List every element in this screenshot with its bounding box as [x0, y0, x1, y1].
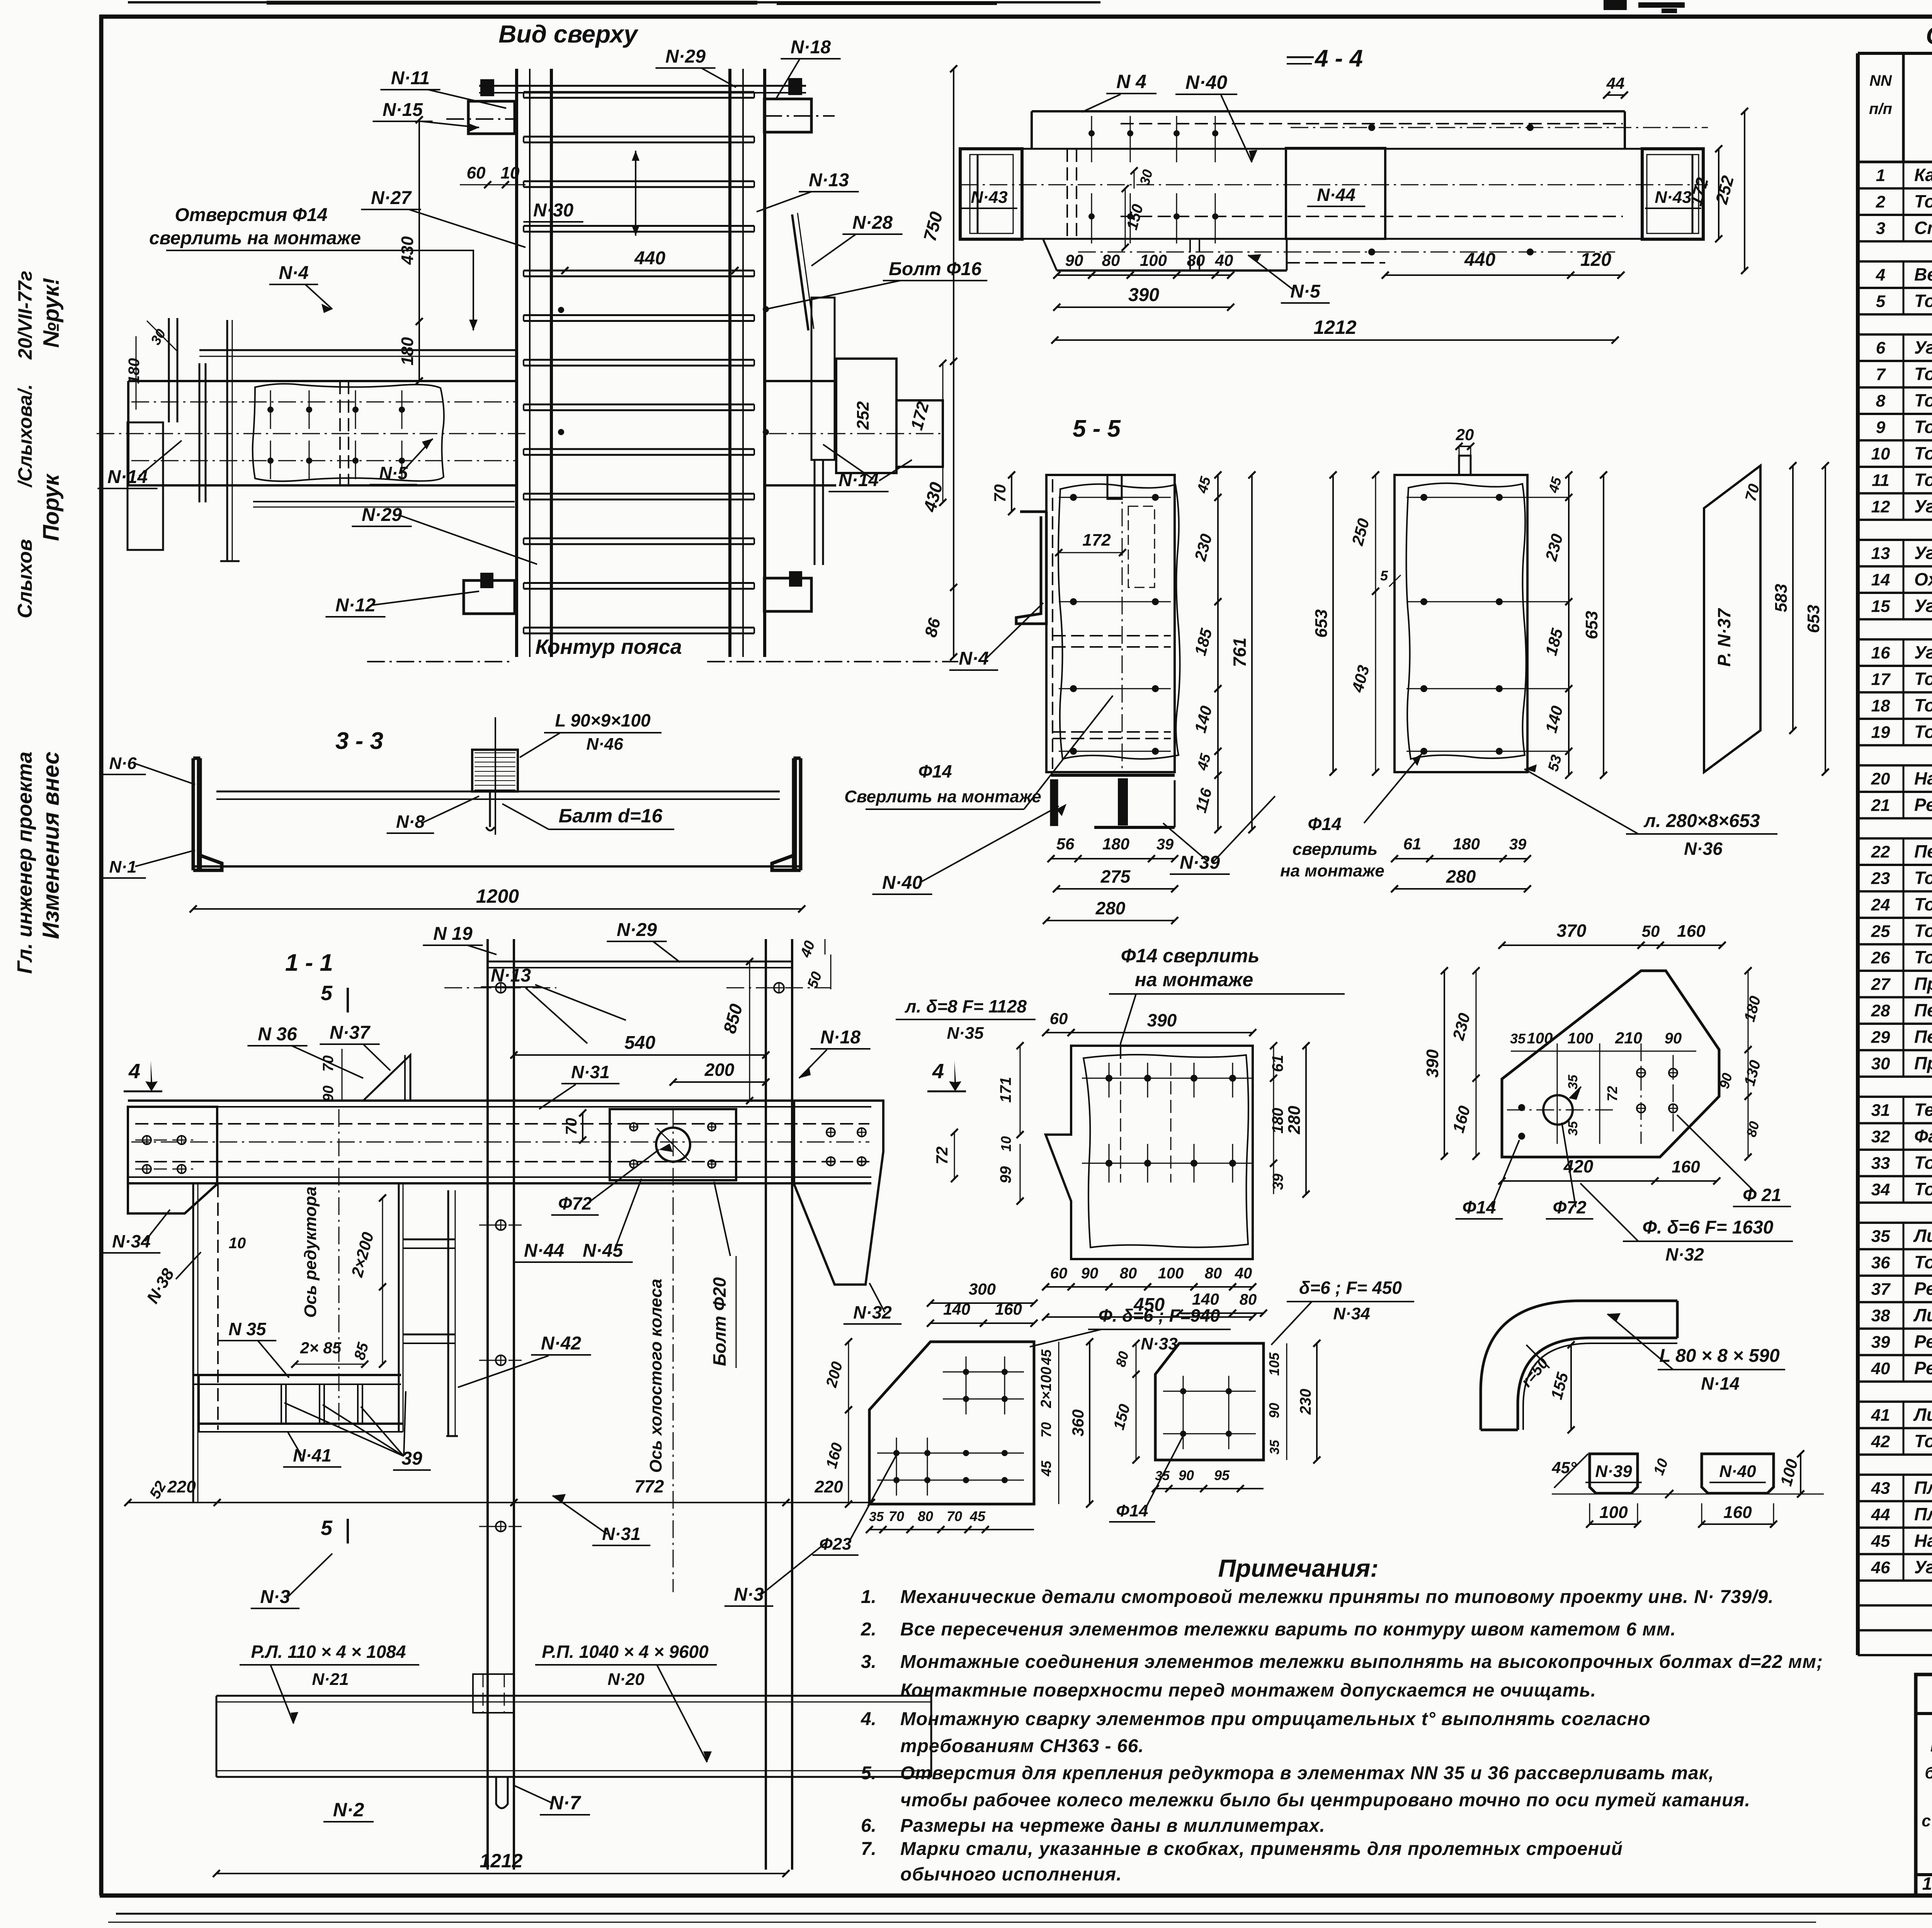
- svg-text:220: 220: [167, 1477, 196, 1496]
- svg-text:20: 20: [1871, 769, 1890, 788]
- svg-text:90: 90: [1266, 1403, 1282, 1418]
- table row 26: [1858, 970, 1932, 972]
- svg-text:N·34: N·34: [112, 1231, 151, 1251]
- table row 24: [1858, 917, 1932, 919]
- 4-4 left bolt pattern: [1088, 130, 1095, 136]
- svg-text:10: 10: [1871, 444, 1890, 463]
- svg-text:обычного исполнения.: обычного исполнения.: [900, 1864, 1122, 1885]
- svg-text:N·43: N·43: [971, 188, 1007, 207]
- 5-5 right parallelogram Р N-37: [1704, 466, 1760, 772]
- 3-3 channel beam: [216, 791, 780, 793]
- svg-text:N·14: N·14: [1701, 1373, 1740, 1394]
- 5-5 left plate: [1046, 475, 1175, 772]
- svg-text:№рук!: №рук!: [39, 278, 64, 348]
- table row s23: [1858, 764, 1932, 767]
- svg-text:на монтаже: на монтаже: [1135, 969, 1253, 990]
- svg-text:34: 34: [1871, 1180, 1890, 1199]
- svg-text:Фасонка: Фасонка: [1914, 1126, 1932, 1146]
- svg-text:4: 4: [932, 1060, 944, 1083]
- page frame: [100, 15, 1932, 19]
- svg-text:52: 52: [146, 1478, 170, 1502]
- svg-text:Уголок: Уголок: [1914, 1557, 1932, 1577]
- svg-text:То же: То же: [1914, 669, 1932, 689]
- N-34 top dims 140 80: [1179, 1312, 1233, 1314]
- table row 9: [1858, 439, 1932, 442]
- svg-text:Марки стали, указанные в скоб: Марки стали, указанные в скобках, примен…: [900, 1839, 1623, 1859]
- svg-text:N·18: N·18: [791, 37, 831, 58]
- svg-text:5.: 5.: [861, 1763, 876, 1783]
- svg-text:Уголок площадки: Уголок площадки: [1914, 496, 1932, 516]
- bracket N-14 (curved angle): [1481, 1301, 1677, 1430]
- svg-text:Отверстия для крепления ред: Отверстия для крепления редуктора в элем…: [900, 1763, 1714, 1783]
- svg-text:То же: То же: [1914, 1179, 1932, 1199]
- svg-text:21: 21: [1871, 796, 1890, 815]
- table row s3: [1858, 260, 1932, 263]
- svg-text:5: 5: [321, 1516, 333, 1540]
- reducer spacer plates 39: [281, 1384, 282, 1424]
- 4-4 left cap dims 150 30: [1125, 189, 1126, 247]
- svg-text:150: 150: [1111, 1402, 1134, 1432]
- table row 25: [1858, 943, 1932, 946]
- table row 35: [1858, 1248, 1932, 1251]
- 5-5 dim 653 right of middle: [1603, 475, 1604, 775]
- 4-4 dims 172 252: [1718, 149, 1719, 239]
- svg-text:70: 70: [563, 1118, 580, 1135]
- svg-text:N·41: N·41: [293, 1445, 332, 1465]
- svg-text:1212: 1212: [1313, 317, 1356, 338]
- svg-text:12: 12: [1871, 497, 1890, 516]
- table row 30: [1858, 1075, 1932, 1078]
- svg-text:440: 440: [1464, 250, 1495, 270]
- svg-text:/Слыхова/.: /Слыхова/.: [14, 384, 36, 488]
- N-32 right dims 180 130 80 90: [1748, 971, 1749, 1050]
- svg-text:370: 370: [1557, 921, 1587, 941]
- 3-3 dim 1200: [193, 908, 802, 910]
- svg-text:220: 220: [814, 1477, 843, 1496]
- svg-text:430: 430: [919, 480, 946, 514]
- svg-text:Сверлить на монтаже: Сверлить на монтаже: [844, 787, 1041, 806]
- table row 27: [1858, 996, 1932, 999]
- 4-4 middle box N-44: [1286, 148, 1385, 239]
- svg-text:N·42: N·42: [541, 1333, 581, 1354]
- svg-text:35: 35: [869, 1509, 884, 1524]
- 5-5 dims 56 180 39: [1051, 858, 1175, 859]
- right arm clamp plates N-14: [811, 298, 835, 460]
- reducer right vertical: [398, 1183, 400, 1432]
- svg-text:То же: То же: [1914, 470, 1932, 490]
- svg-text:250: 250: [1348, 516, 1373, 548]
- 5-5 middle dim 280: [1395, 888, 1527, 890]
- N-35 dim 450: [1046, 1316, 1253, 1318]
- 5-5 left dashed details: [1052, 479, 1053, 769]
- svg-text:39: 39: [1156, 836, 1174, 853]
- plate N-39 small: [1590, 1454, 1638, 1493]
- table row s6: [1858, 334, 1932, 336]
- 5-5 middle wavy inner: [1406, 483, 1526, 759]
- svg-text:Каркас тележки: Каркас тележки: [1914, 165, 1932, 185]
- svg-text:1 - 1: 1 - 1: [285, 950, 333, 976]
- svg-text:N·31: N·31: [602, 1524, 641, 1544]
- svg-text:300: 300: [969, 1280, 996, 1298]
- svg-text:То же: То же: [1914, 291, 1932, 311]
- svg-text:60: 60: [1050, 1009, 1068, 1028]
- svg-text:35: 35: [1267, 1440, 1282, 1455]
- 5-5 right dim chain: [1217, 475, 1219, 830]
- svg-text:требованиям СН363 - 66.: требованиям СН363 - 66.: [900, 1736, 1144, 1756]
- svg-text:Прутки настила: Прутки настила: [1914, 1053, 1932, 1073]
- table row 13: [1858, 565, 1932, 568]
- svg-text:160: 160: [823, 1441, 846, 1470]
- svg-text:100: 100: [1158, 1265, 1184, 1282]
- svg-text:80: 80: [1120, 1265, 1137, 1282]
- svg-text:100: 100: [1140, 251, 1167, 269]
- svg-text:N·39: N·39: [1595, 1462, 1632, 1481]
- svg-text:46: 46: [1871, 1558, 1890, 1577]
- svg-text:653: 653: [1804, 605, 1823, 633]
- 3-3 left end angle: [193, 758, 222, 870]
- svg-text:70: 70: [1038, 1422, 1054, 1438]
- svg-text:N·31: N·31: [571, 1062, 610, 1082]
- top clamp plate right N-18: [764, 99, 811, 132]
- svg-text:Ф14 сверлить: Ф14 сверлить: [1121, 945, 1260, 967]
- svg-text:N 4: N 4: [1116, 71, 1146, 92]
- title block outer: [1916, 1674, 1932, 1896]
- baseline through plates: [1552, 1494, 1824, 1495]
- table row 17: [1858, 691, 1932, 694]
- svg-text:140: 140: [1192, 1290, 1219, 1308]
- svg-text:N·13: N·13: [809, 170, 849, 191]
- svg-text:N·14: N·14: [107, 467, 148, 487]
- bottom clamp plate left N-12: [464, 580, 515, 614]
- svg-text:18: 18: [1871, 696, 1890, 715]
- 5-5 middle dim 20 top: [1459, 446, 1471, 447]
- svg-text:Планка: Планка: [1914, 1477, 1932, 1497]
- scan smudge top-center: [1604, 0, 1627, 10]
- top view top bar N-29: [479, 85, 806, 87]
- top clamp plate left N-11/15: [468, 101, 515, 134]
- svg-text:4: 4: [128, 1060, 140, 1083]
- 4-4 right cap N-43: [1642, 149, 1703, 239]
- svg-text:17: 17: [1871, 670, 1891, 689]
- table row s51: [1858, 1474, 1932, 1476]
- svg-text:N·46: N·46: [586, 735, 623, 754]
- piece N-28 diagonal strip: [792, 214, 808, 330]
- svg-text:Планка: Планка: [1914, 1504, 1932, 1524]
- table row 14: [1858, 592, 1932, 594]
- svg-text:Р. N·37: Р. N·37: [1714, 607, 1734, 667]
- svg-text:сверлить: сверлить: [1293, 840, 1378, 859]
- svg-text:70: 70: [320, 1055, 337, 1072]
- svg-text:13: 13: [1871, 544, 1890, 563]
- svg-text:30: 30: [1136, 168, 1156, 187]
- svg-text:Ребро: Ребро: [1914, 1278, 1932, 1298]
- svg-text:583: 583: [1772, 584, 1791, 612]
- svg-text:N 19: N 19: [433, 924, 473, 944]
- table row t58: [1858, 1654, 1932, 1656]
- svg-text:Ф72: Ф72: [1553, 1197, 1586, 1217]
- svg-text:40: 40: [1235, 1265, 1252, 1282]
- 5-5 angle bracket N-4: [1016, 512, 1046, 624]
- svg-text:39: 39: [1509, 836, 1527, 853]
- svg-text:5: 5: [321, 982, 333, 1005]
- svg-text:653: 653: [1312, 609, 1331, 638]
- svg-text:28: 28: [1871, 1001, 1890, 1020]
- svg-text:440: 440: [634, 248, 665, 269]
- svg-text:То же: То же: [1914, 364, 1932, 384]
- svg-text:Охранный уголок: Охранный уголок: [1914, 569, 1932, 589]
- svg-text:То же: То же: [1914, 894, 1932, 914]
- svg-text:Ребро настила: Ребро настила: [1914, 795, 1932, 815]
- svg-text:N·11: N·11: [391, 68, 430, 88]
- idler ladder verticals: [447, 1190, 449, 1436]
- vertical bar near left rail: [226, 320, 228, 561]
- svg-text:N·32: N·32: [853, 1302, 892, 1322]
- svg-text:Рабочие чертежи: Рабочие чертежи: [1930, 1731, 1932, 1756]
- dim 180 left: [418, 322, 420, 381]
- svg-text:То же: То же: [1914, 1431, 1932, 1451]
- table row 32: [1858, 1149, 1932, 1151]
- svg-text:390: 390: [1128, 285, 1159, 305]
- N-34 bolts: [1180, 1388, 1186, 1394]
- 4-4 dims 90 80 100 80 40: [1057, 274, 1231, 276]
- svg-text:100: 100: [1527, 1030, 1553, 1047]
- svg-text:100: 100: [1599, 1503, 1628, 1522]
- svg-text:90: 90: [1081, 1265, 1099, 1282]
- svg-text:772: 772: [634, 1476, 664, 1496]
- svg-text:10: 10: [998, 1136, 1014, 1152]
- svg-text:N·43: N·43: [1655, 188, 1691, 207]
- plate N-34: [1155, 1343, 1264, 1460]
- svg-text:N·29: N·29: [617, 920, 657, 940]
- svg-text:15: 15: [1871, 597, 1890, 616]
- svg-text:90: 90: [1665, 1030, 1682, 1047]
- svg-text:N·28: N·28: [852, 213, 893, 233]
- svg-text:80: 80: [918, 1508, 933, 1524]
- svg-text:40: 40: [797, 939, 818, 960]
- table row t57: [1858, 1629, 1932, 1632]
- N-35 dims bottom 60 90 80 100 80 40: [1046, 1286, 1253, 1288]
- table row 11: [1858, 492, 1932, 495]
- svg-text:160: 160: [1677, 922, 1706, 941]
- table row t56: [1858, 1604, 1932, 1606]
- svg-text:20: 20: [1456, 425, 1474, 444]
- svg-text:160: 160: [1672, 1157, 1700, 1176]
- svg-text:Спецификация металла на одн: Спецификация металла на одну тележку: [1926, 22, 1932, 49]
- top view rungs: [524, 91, 754, 93]
- table row 42: [1858, 1453, 1932, 1456]
- svg-text:140: 140: [1542, 704, 1566, 735]
- svg-text:То же: То же: [1914, 390, 1932, 410]
- table row 2: [1858, 214, 1932, 216]
- svg-text:Вид сверху: Вид сверху: [498, 20, 639, 48]
- 1-1 small gusset 36-37: [363, 1055, 410, 1101]
- svg-text:Верхний швеллер: Верхний швеллер: [1914, 264, 1932, 284]
- svg-text:35: 35: [1566, 1074, 1580, 1089]
- svg-text:Уголок площадки: Уголок площадки: [1914, 543, 1932, 563]
- bottom bar bolt hatch right: [789, 571, 802, 587]
- svg-text:N·3: N·3: [260, 1587, 290, 1607]
- svg-text:210: 210: [1615, 1029, 1642, 1047]
- svg-text:38: 38: [1871, 1306, 1890, 1325]
- svg-text:60: 60: [1050, 1265, 1068, 1282]
- table row 8: [1858, 413, 1932, 415]
- svg-text:35: 35: [1510, 1031, 1526, 1047]
- svg-text:Прутки лестницы: Прутки лестницы: [1914, 973, 1932, 994]
- svg-text:Ф14: Ф14: [1462, 1197, 1496, 1217]
- svg-text:29: 29: [1871, 1028, 1890, 1047]
- N-32 hole guide lines: [1507, 1109, 1615, 1111]
- svg-text:1973г: 1973г: [1922, 1874, 1932, 1894]
- post mid holes: [496, 1220, 506, 1230]
- svg-text:16: 16: [1871, 643, 1890, 662]
- svg-text:35: 35: [1566, 1121, 1580, 1136]
- svg-text:80: 80: [1112, 1349, 1132, 1368]
- svg-text:1: 1: [1876, 166, 1885, 185]
- 4-4 dim 44 top: [1607, 94, 1624, 96]
- svg-text:Механические детали смотровой: Механические детали смотровой тележки пр…: [900, 1587, 1774, 1607]
- table row 40: [1858, 1380, 1932, 1383]
- svg-text:чтобы рабочее колесо тележк: чтобы рабочее колесо тележки было бы цен…: [900, 1790, 1750, 1811]
- top bar bolt hatch left: [480, 79, 494, 96]
- svg-text:5 - 5: 5 - 5: [1073, 415, 1121, 442]
- svg-text:То же: То же: [1914, 443, 1932, 463]
- 4-4 dim 390: [1057, 306, 1231, 308]
- svg-text:2×200: 2×200: [348, 1230, 377, 1279]
- svg-text:45: 45: [1871, 1532, 1890, 1550]
- svg-text:90: 90: [1179, 1467, 1194, 1483]
- svg-text:N·7: N·7: [549, 1792, 582, 1814]
- svg-text:80: 80: [1102, 251, 1120, 269]
- N-33 bottom dims 35 70 80 70 45: [869, 1529, 1034, 1530]
- svg-text:Уголок перил: Уголок перил: [1914, 642, 1932, 662]
- table row 38: [1858, 1327, 1932, 1330]
- svg-text:п/п: п/п: [1869, 100, 1892, 117]
- table row 45: [1858, 1553, 1932, 1555]
- svg-text:45: 45: [1545, 475, 1565, 495]
- svg-text:99: 99: [997, 1166, 1014, 1183]
- dim 440: [565, 270, 735, 271]
- table row 33: [1858, 1175, 1932, 1178]
- svg-text:45: 45: [1038, 1460, 1054, 1477]
- reducer bottom plate: [197, 1423, 403, 1425]
- 5-5 middle plate: [1395, 475, 1527, 772]
- svg-text:90: 90: [1065, 251, 1083, 269]
- svg-text:390: 390: [1147, 1010, 1177, 1030]
- svg-text:N·34: N·34: [1333, 1304, 1370, 1323]
- svg-text:61: 61: [1269, 1055, 1286, 1072]
- plate N-33: [869, 1342, 1034, 1504]
- dim N-30 vertical arrows: [635, 151, 636, 236]
- svg-text:44: 44: [1871, 1505, 1890, 1524]
- svg-text:N·8: N·8: [396, 812, 425, 832]
- svg-text:3 - 3: 3 - 3: [335, 728, 383, 754]
- svg-text:43: 43: [1871, 1479, 1890, 1497]
- svg-text:N·35: N·35: [947, 1024, 984, 1043]
- svg-text:л. δ=8 F= 1128: л. δ=8 F= 1128: [905, 996, 1027, 1016]
- svg-text:200: 200: [704, 1060, 735, 1080]
- 4-4 bottom plate: [1057, 269, 1287, 272]
- svg-text:22: 22: [1871, 842, 1890, 861]
- table row 7: [1858, 386, 1932, 389]
- svg-text:45: 45: [1194, 752, 1214, 773]
- dim 300 above N-33: [930, 1302, 1034, 1304]
- svg-text:45°: 45°: [1551, 1458, 1577, 1477]
- svg-text:N·15: N·15: [383, 100, 423, 120]
- svg-text:То же: То же: [1914, 1152, 1932, 1172]
- 4-4 dims 440 120: [1385, 274, 1621, 276]
- svg-text:70: 70: [889, 1508, 904, 1524]
- svg-text:4 - 4: 4 - 4: [1314, 45, 1363, 72]
- svg-text:N·36: N·36: [1684, 839, 1723, 859]
- table row s36: [1858, 1096, 1932, 1098]
- svg-text:14: 14: [1871, 570, 1890, 589]
- table row 37: [1858, 1301, 1932, 1303]
- svg-text:3.: 3.: [861, 1652, 876, 1672]
- table outer vertical: [1856, 53, 1860, 1655]
- 1-1 dim 200: [673, 1081, 766, 1083]
- left clamp N-14 plates: [168, 318, 170, 422]
- svg-text:То же: То же: [1914, 191, 1932, 211]
- svg-text:7.: 7.: [861, 1839, 876, 1859]
- table row 34: [1858, 1201, 1932, 1204]
- 1-1 top bar N-29: [488, 961, 792, 963]
- plate N-40 small: [1702, 1454, 1774, 1493]
- table row 20: [1858, 791, 1932, 793]
- bottom rule line: [116, 1913, 1932, 1915]
- table row 46: [1858, 1579, 1932, 1582]
- N-32 bottom dims 420 160: [1502, 1180, 1655, 1182]
- 1-1 reducer support left verticals: [192, 1184, 194, 1503]
- N-35 dims left 171 10 99: [1020, 1046, 1021, 1135]
- svg-text:120: 120: [1580, 250, 1611, 270]
- svg-text:10: 10: [501, 163, 520, 182]
- svg-text:172: 172: [907, 400, 933, 432]
- svg-text:80: 80: [1240, 1291, 1257, 1308]
- svg-text:Уголок каркаса: Уголок каркаса: [1914, 337, 1932, 357]
- svg-text:Монтажные соединения элемен: Монтажные соединения элементов тележки в…: [900, 1652, 1823, 1672]
- svg-text:20/VII-77г: 20/VII-77г: [14, 271, 36, 360]
- svg-text:171: 171: [997, 1077, 1014, 1103]
- 5-5 middle left dims 250 403 653: [1375, 475, 1376, 591]
- svg-text:30: 30: [1871, 1054, 1890, 1073]
- svg-text:45: 45: [969, 1508, 986, 1524]
- plate N-35 wavy inner: [1083, 1055, 1248, 1247]
- post top holes: [496, 983, 506, 993]
- svg-text:N·44: N·44: [524, 1241, 564, 1261]
- svg-text:на монтаже: на монтаже: [1280, 861, 1384, 880]
- svg-text:Ось редуктора: Ось редуктора: [301, 1186, 320, 1318]
- top view left rail: [515, 69, 518, 657]
- year row: [1916, 1874, 1932, 1876]
- table row s26: [1858, 837, 1932, 840]
- svg-text:45: 45: [1038, 1349, 1054, 1365]
- plate N-32 pentagon: [1502, 971, 1719, 1157]
- N-32 big hole Ф72: [1543, 1095, 1573, 1125]
- N-32 top dims 370 50 160: [1502, 944, 1641, 946]
- svg-text:30: 30: [147, 326, 169, 347]
- N-35 dims right 61 180 39 280: [1273, 1046, 1274, 1078]
- svg-text:N·5: N·5: [1290, 281, 1321, 302]
- svg-text:Перильное заполнение: Перильное заполнение: [1914, 1000, 1932, 1020]
- N-34 left dims 80 150: [1136, 1343, 1137, 1374]
- svg-text:180: 180: [398, 337, 417, 366]
- table row 3: [1858, 240, 1932, 243]
- svg-text:2×100: 2×100: [1038, 1367, 1054, 1409]
- svg-text:Настил тележки: Настил тележки: [1914, 768, 1932, 788]
- svg-text:N·37: N·37: [330, 1023, 371, 1043]
- svg-text:40: 40: [1871, 1359, 1890, 1378]
- svg-text:185: 185: [1191, 626, 1216, 657]
